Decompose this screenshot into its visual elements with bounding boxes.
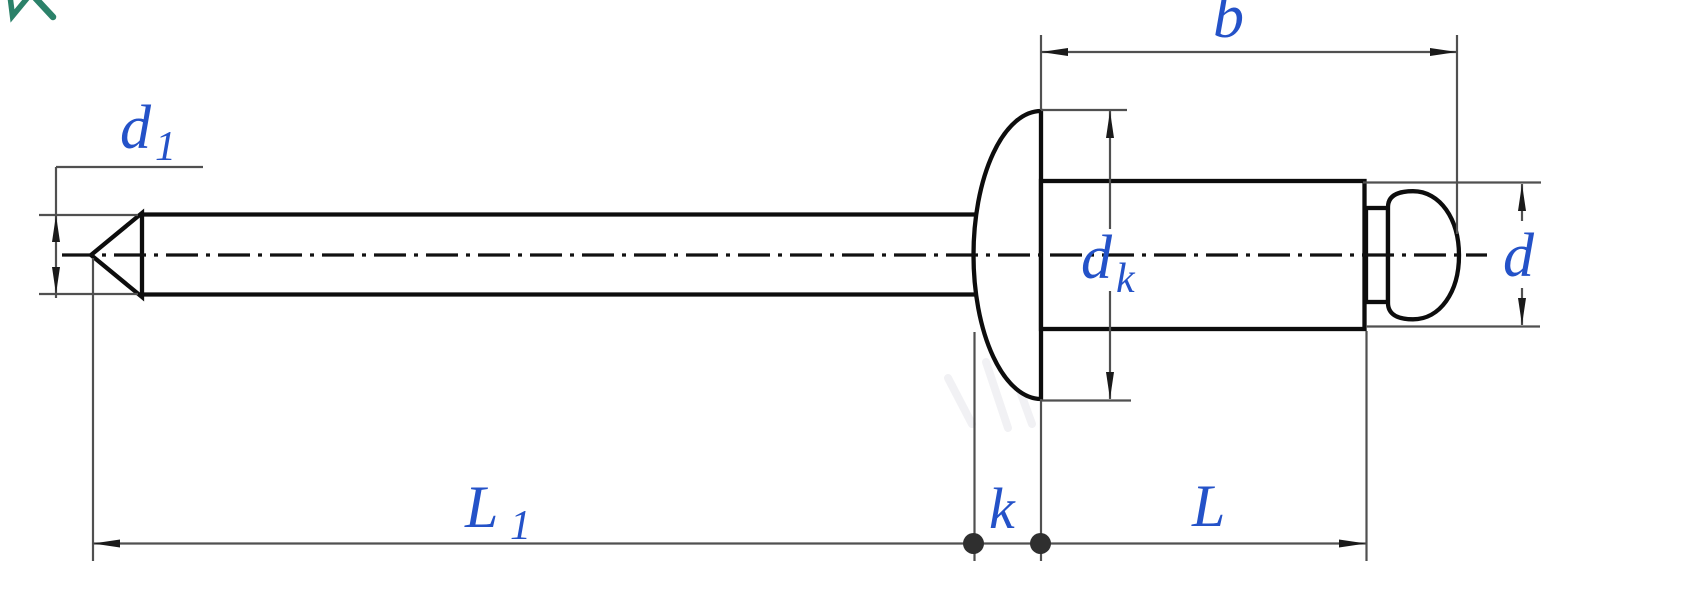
svg-text:k: k	[989, 476, 1016, 541]
b dimension line	[1041, 51, 1457, 53]
mandrel rod top line	[142, 212, 985, 216]
arrow dk down	[1106, 372, 1114, 399]
mandrel collar	[1366, 208, 1388, 302]
mandrel cone tip	[91, 213, 142, 297]
mandrel rod body fill	[142, 212, 985, 296]
dk dimension line upper segment	[1109, 111, 1111, 229]
d1 vertical dimension line	[55, 167, 57, 298]
L right extension line	[1365, 331, 1367, 561]
arrow d1 up	[52, 215, 60, 242]
svg-text:L: L	[464, 474, 498, 540]
d1 label leader horizontal line	[56, 166, 203, 168]
svg-text:d: d	[1503, 222, 1535, 290]
centerline axis dash-dot	[62, 253, 1487, 256]
arrow b right	[1430, 48, 1457, 56]
logo green stroke right (diagonal)	[34, 0, 54, 17]
arrow dk up	[1106, 111, 1114, 138]
d bottom extension line	[1366, 325, 1540, 327]
arrow d up	[1518, 184, 1526, 211]
watermark ghost marks	[948, 362, 1032, 428]
junction dot k left	[963, 533, 984, 554]
arrowheads	[52, 48, 1526, 548]
svg-text:L: L	[1191, 473, 1225, 539]
arrow d down	[1518, 298, 1526, 325]
b left extension line	[1040, 35, 1042, 110]
rivet dome head	[974, 111, 1042, 399]
dk dimension line lower segment	[1109, 291, 1111, 399]
svg-text:1: 1	[510, 503, 531, 549]
dk top extension line	[1041, 109, 1127, 111]
k right / L left extension line	[1040, 399, 1042, 561]
svg-text:d: d	[120, 94, 152, 162]
svg-text:b: b	[1213, 0, 1244, 51]
logo green stroke left (check V)	[10, 0, 29, 16]
d dimension lower arrow segment	[1521, 288, 1523, 325]
bottom dimension line L1 k L	[93, 542, 1367, 544]
svg-text:1: 1	[155, 124, 176, 170]
svg-text:k: k	[1116, 256, 1136, 302]
arrow L right	[1339, 540, 1366, 548]
b right extension line	[1456, 35, 1458, 234]
d dimension upper arrow segment	[1521, 184, 1523, 221]
junction dot k right	[1030, 533, 1051, 554]
svg-text:d: d	[1081, 224, 1113, 292]
k left extension line	[973, 332, 975, 561]
thin lines group	[39, 35, 1541, 561]
arrow b left	[1041, 48, 1068, 56]
d1 top extension line	[39, 214, 138, 216]
dk bottom extension line	[1040, 399, 1131, 401]
rivet body	[1041, 181, 1365, 329]
d top extension line	[1363, 181, 1541, 183]
arrow d1 down	[52, 267, 60, 294]
L1 left extension line	[92, 258, 94, 561]
arrow L1 left	[93, 540, 120, 548]
d1 bottom extension line	[39, 293, 138, 295]
mandrel knob head	[1388, 191, 1459, 319]
mandrel rod bottom line	[142, 292, 985, 296]
